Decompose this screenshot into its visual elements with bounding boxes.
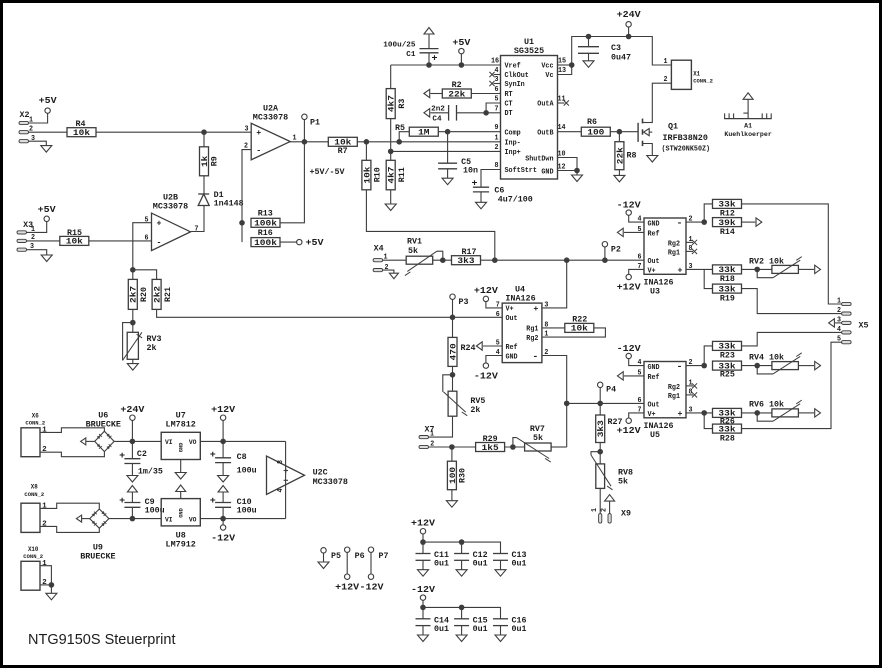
capacitor C14 0u1 [422, 607, 424, 618]
svg-text:A1: A1 [744, 123, 752, 131]
svg-text:X6: X6 [32, 412, 39, 419]
svg-text:10k: 10k [73, 129, 90, 138]
svg-text:2k2: 2k2 [154, 286, 163, 303]
svg-text:4: 4 [495, 67, 499, 75]
test point P5 [321, 548, 326, 553]
wire R12 to X5 pin1 [742, 204, 842, 304]
svg-text:V+: V+ [506, 306, 514, 314]
resistor R18 33k [713, 265, 742, 274]
svg-text:P5: P5 [331, 552, 341, 561]
wire C5 to ground [447, 169, 449, 178]
svg-text:Ref: Ref [506, 344, 518, 352]
wire R11 to ground [390, 190, 392, 204]
svg-text:+: + [533, 305, 538, 314]
svg-text:3k3: 3k3 [597, 420, 606, 437]
svg-text:0u1: 0u1 [512, 560, 527, 569]
svg-text:C1: C1 [406, 51, 416, 59]
svg-text:3k3: 3k3 [457, 257, 474, 266]
test point P7 [368, 547, 373, 552]
svg-text:R8: R8 [627, 152, 637, 161]
svg-text:1: 1 [42, 426, 47, 434]
wiper hook RV2 [757, 269, 773, 277]
+24V rail to U7 [114, 440, 161, 442]
test point P6 [345, 547, 350, 552]
gnd arrow above C10 [222, 492, 224, 503]
resistor R19 33k [704, 269, 712, 288]
svg-text:RV2: RV2 [749, 258, 764, 267]
svg-text:-: - [532, 352, 538, 362]
svg-text:Vref: Vref [505, 63, 521, 71]
-12V symbol for C14 [420, 595, 425, 600]
svg-text:+: + [119, 451, 125, 461]
svg-text:33k: 33k [718, 425, 735, 434]
svg-text:R20: R20 [140, 287, 149, 302]
svg-text:R27: R27 [608, 418, 623, 427]
svg-text:CONN_2: CONN_2 [23, 553, 43, 560]
wire R7 to SG3525 Inp- [357, 141, 500, 143]
+12V symbol for C11 [420, 529, 425, 534]
svg-text:0u1: 0u1 [434, 560, 449, 569]
svg-text:7: 7 [495, 105, 499, 113]
capacitor C8 100u [222, 441, 224, 457]
resistor R12 33k [704, 204, 712, 222]
resistor R26 33k [713, 408, 742, 417]
-12V rail to U8 [109, 518, 161, 520]
svg-text:-12V: -12V [411, 585, 436, 595]
wire RV7 to U4 minus line [551, 446, 567, 448]
svg-text:22k: 22k [448, 90, 465, 99]
svg-text:+: + [256, 129, 261, 138]
svg-text:2: 2 [42, 579, 47, 587]
wire X2 pin2 to R4 [29, 131, 68, 133]
svg-text:+: + [157, 220, 162, 229]
wire X2 pin3 to ground [29, 141, 47, 145]
resistor R11 4k7 [390, 151, 392, 160]
svg-text:4u7/100: 4u7/100 [498, 196, 533, 205]
junction C5 top [445, 129, 451, 135]
trimmer RV8 5k [596, 464, 605, 489]
svg-text:9: 9 [495, 124, 499, 132]
svg-text:Out: Out [506, 315, 518, 323]
svg-text:1m/35: 1m/35 [138, 468, 163, 477]
svg-text:INA126: INA126 [505, 294, 535, 304]
rail for C11-C13 [423, 542, 501, 553]
svg-text:R18: R18 [720, 275, 735, 284]
wire D1 to U2B output [191, 206, 205, 232]
junction R9 top [201, 129, 207, 135]
svg-text:V+: V+ [648, 411, 656, 419]
ground at Q1 source [647, 156, 658, 163]
trimmer RV3 2k [127, 332, 138, 359]
gnd arrow above U8 [180, 492, 182, 499]
wire R6 to Q1 gate [610, 131, 638, 133]
svg-text:Out: Out [648, 258, 660, 266]
svg-text:GND: GND [178, 508, 185, 518]
svg-text:100: 100 [449, 467, 458, 484]
svg-text:-: - [677, 219, 683, 229]
svg-text:+: + [210, 450, 216, 460]
svg-text:X4: X4 [374, 245, 384, 254]
+12V symbol at U5 [629, 413, 644, 418]
svg-text:2k: 2k [147, 344, 157, 353]
svg-text:7: 7 [195, 225, 199, 233]
svg-text:-12V: -12V [474, 372, 499, 382]
capacitor C12 0u1 [461, 542, 463, 553]
junction RV2 left [742, 268, 772, 270]
junction RV3 top [130, 320, 136, 326]
svg-text:+: + [678, 410, 683, 419]
svg-text:(STW20NK50Z): (STW20NK50Z) [662, 145, 711, 153]
svg-text:Rg2: Rg2 [526, 335, 538, 343]
svg-text:GND: GND [541, 168, 553, 176]
+24V symbol at bridge [130, 415, 135, 420]
svg-text:1: 1 [664, 58, 668, 66]
ground at X10 [50, 585, 52, 593]
wire C4 to DT and CT pins [457, 112, 501, 114]
svg-text:C2: C2 [137, 450, 147, 459]
net arrow after RV4 [798, 365, 814, 367]
svg-text:2: 2 [495, 144, 499, 152]
wire R5 right to Comp pin [438, 131, 500, 133]
wire X8 pin1 to bridge [40, 503, 99, 509]
capacitor C15 0u1 [461, 607, 463, 618]
connector X1 CONN_2 [671, 60, 691, 89]
svg-text:R25: R25 [720, 371, 735, 380]
wire U5 out to P4 and U4 minus [567, 402, 644, 404]
wire RV5 to X7 pin1 [429, 416, 453, 437]
svg-text:CONN_2: CONN_2 [24, 491, 44, 498]
svg-text:1: 1 [495, 134, 499, 142]
svg-text:+5V: +5V [38, 205, 57, 215]
svg-text:1: 1 [42, 502, 47, 510]
svg-text:+5V: +5V [39, 96, 58, 106]
svg-text:MC33078: MC33078 [153, 202, 188, 212]
wire X3 pin1 to +5V [27, 221, 47, 232]
svg-text:Q1: Q1 [668, 122, 678, 132]
svg-text:C8: C8 [237, 453, 247, 462]
svg-text:SG3525: SG3525 [514, 46, 544, 56]
wire RV8 to X9 pin1 [599, 489, 601, 514]
svg-text:2: 2 [42, 520, 47, 528]
resistor R27 3k3 [599, 403, 601, 415]
svg-text:2k: 2k [470, 406, 480, 415]
svg-text:Rg2: Rg2 [668, 240, 680, 248]
svg-text:R23: R23 [720, 352, 735, 361]
ground under C11 [418, 570, 429, 577]
junction RV8 top [599, 443, 601, 464]
wiper hook RV5 [443, 375, 453, 392]
resistor R21 2k2 [152, 279, 161, 309]
wire X1 pin2 to Q1 drain [643, 83, 672, 122]
svg-text:RV3: RV3 [147, 335, 162, 344]
svg-text:-: - [157, 238, 162, 247]
wire X6 pin1 to bridge [40, 428, 104, 433]
wire R10 loop to R17 node [366, 190, 494, 260]
svg-text:C3: C3 [611, 44, 621, 53]
svg-text:2n2: 2n2 [431, 106, 445, 114]
wire U2A output to R7 [290, 141, 328, 143]
wire R22 to Rg2 [542, 328, 606, 337]
svg-text:Out: Out [648, 401, 660, 409]
svg-text:Comp: Comp [505, 129, 521, 137]
pin 3 SynIn with x [494, 83, 501, 85]
net arrow X5 pin3 [829, 319, 835, 327]
net arrow above C1 [424, 28, 434, 35]
svg-text:8: 8 [277, 460, 285, 464]
svg-text:-12V: -12V [617, 344, 642, 354]
svg-text:VI: VI [165, 516, 173, 523]
svg-text:+: + [119, 496, 125, 506]
wire X6 pin2 to bridge [40, 452, 104, 457]
svg-text:R7: R7 [338, 147, 348, 156]
wire R5 left to Inp- node [399, 132, 409, 142]
test point P3 [450, 294, 455, 299]
svg-text:+: + [432, 54, 438, 64]
svg-text:R9: R9 [211, 156, 220, 166]
svg-text:X10: X10 [28, 546, 39, 553]
test point P1 [302, 114, 307, 119]
svg-text:RV8: RV8 [618, 469, 633, 478]
svg-text:R13: R13 [258, 210, 273, 219]
wire U4 minus down [542, 356, 567, 448]
instrumentation amp U4 INA126 box [502, 303, 542, 363]
svg-text:R16: R16 [258, 229, 273, 238]
wiper hook RV8 [591, 452, 600, 455]
svg-text:RV7: RV7 [530, 425, 545, 434]
wire C3 to ground [588, 53, 590, 61]
svg-text:ClkOut: ClkOut [505, 72, 529, 80]
wire OutB to R6 [558, 131, 582, 133]
net arrow U5 Ref [624, 375, 644, 377]
svg-text:OutA: OutA [537, 101, 554, 109]
svg-text:Inp+: Inp+ [505, 149, 521, 157]
svg-text:MC33078: MC33078 [253, 113, 288, 123]
svg-text:P3: P3 [459, 298, 469, 307]
+24V symbol [626, 22, 631, 27]
svg-text:MC33078: MC33078 [313, 477, 348, 487]
wire U5 plus to R26 [686, 412, 713, 414]
wire R3 to Inp+ node [390, 119, 392, 152]
svg-text:P2: P2 [611, 246, 621, 255]
junction U2A output [302, 139, 308, 145]
+5V symbol top [459, 48, 464, 53]
net arrow at C4 [424, 109, 430, 117]
capacitor C11 0u1 [422, 542, 424, 553]
wire X10 pin2 [40, 584, 51, 586]
svg-text:1: 1 [591, 508, 599, 512]
wire R23 to X5 pin4 [742, 332, 842, 346]
wiper hook RV4 [757, 366, 773, 374]
svg-text:Rg1: Rg1 [526, 326, 538, 334]
wire X8 pin2 to bridge [40, 526, 99, 532]
net arrow above X9 pin2 [605, 495, 615, 502]
-12V symbol at U3 [629, 215, 644, 222]
svg-text:X9: X9 [621, 510, 631, 519]
wiper hook RV6 [757, 413, 773, 421]
junction P3 [450, 315, 456, 321]
+12V symbol at U7 [220, 415, 225, 420]
junction R5 left [396, 139, 402, 145]
wiper hook RV1 [437, 251, 443, 260]
svg-text:1k: 1k [201, 155, 210, 167]
svg-text:-12V: -12V [617, 201, 642, 211]
svg-text:RV4: RV4 [749, 354, 764, 363]
-12V symbol at U4 [486, 356, 502, 364]
svg-text:1n4148: 1n4148 [214, 200, 244, 209]
svg-text:+24V: +24V [617, 10, 642, 20]
resistor R14 39k [713, 218, 742, 227]
wire R13 to output node [280, 142, 304, 223]
svg-text:Ref: Ref [648, 231, 660, 239]
svg-text:8: 8 [495, 162, 499, 170]
U5 Rg2 pin x [686, 385, 693, 387]
gnd arrow above C9 [131, 492, 133, 503]
svg-text:-: - [256, 147, 261, 156]
svg-text:R3: R3 [398, 98, 407, 108]
svg-text:Ref: Ref [648, 374, 660, 382]
svg-text:1: 1 [837, 298, 841, 306]
svg-text:0u1: 0u1 [512, 625, 527, 634]
wire R4 to U2A noninverting input [96, 131, 251, 133]
svg-text:INA126: INA126 [644, 279, 674, 288]
svg-text:Rg1: Rg1 [668, 249, 680, 257]
-12V symbol under C10 [222, 519, 224, 526]
svg-text:4k7: 4k7 [388, 166, 397, 183]
svg-text:470: 470 [449, 343, 458, 360]
svg-text:R14: R14 [720, 228, 735, 237]
svg-text:R10: R10 [374, 167, 383, 182]
svg-text:0u1: 0u1 [434, 625, 449, 634]
svg-text:Vc: Vc [545, 72, 553, 80]
wire U3 plus to R18 [686, 268, 713, 270]
svg-text:U2C: U2C [313, 468, 328, 478]
wire P1 to output node [303, 119, 305, 142]
wiper hook RV7 [513, 438, 517, 447]
svg-text:+12V: +12V [474, 286, 499, 296]
resistor R24 470 [452, 317, 454, 337]
svg-text:DT: DT [505, 110, 513, 118]
wire X3 pin2 to R15 [27, 240, 60, 242]
wire R15 to U2B inverting input [89, 240, 152, 242]
svg-text:P7: P7 [379, 552, 389, 561]
svg-text:R6: R6 [587, 118, 597, 127]
svg-text:1M: 1M [418, 129, 430, 138]
svg-text:100k: 100k [254, 239, 277, 248]
svg-text:39k: 39k [718, 219, 735, 228]
heatsink A1 Kuehlkoerper [724, 118, 772, 120]
svg-text:0u1: 0u1 [473, 625, 488, 634]
junction R13 left [239, 220, 245, 226]
svg-text:GND: GND [648, 364, 660, 372]
svg-text:+12V: +12V [335, 583, 360, 593]
instrumentation amp U5 INA126 [644, 362, 686, 418]
diode D1 1n4148 [203, 176, 205, 194]
junction R20 R21 top [130, 267, 136, 273]
op-amp U2C power unit [267, 456, 305, 494]
resistor R8 22k [618, 132, 620, 142]
svg-text:R11: R11 [398, 167, 407, 182]
svg-text:-12V: -12V [211, 534, 236, 544]
wire Vc to Vcc node [558, 65, 572, 75]
junction R10 loop [492, 257, 498, 263]
wire Inp+ node to SG3525 pin2 [391, 150, 501, 152]
-12V symbol at U5 [629, 358, 644, 365]
svg-text:Rg1: Rg1 [668, 393, 680, 401]
resistor R9 1k [203, 132, 205, 147]
svg-text:U3: U3 [650, 288, 660, 297]
+5V symbol at X3 [44, 216, 49, 221]
wire X10 pin1 [40, 566, 51, 585]
wire R8 to ground [618, 170, 620, 176]
net arrow U4 Ref [483, 345, 502, 347]
svg-text:LM7912: LM7912 [166, 540, 196, 550]
svg-text:Vcc: Vcc [541, 63, 553, 71]
svg-text:3: 3 [495, 76, 499, 84]
-12V rail from U8 [200, 518, 285, 520]
capacitor C3 0u47 [588, 37, 590, 47]
svg-text:0u1: 0u1 [473, 560, 488, 569]
capacitor C10 100u [222, 507, 224, 518]
svg-text:+12V: +12V [617, 426, 642, 436]
junction RV6 left [742, 412, 772, 414]
svg-text:1: 1 [42, 560, 47, 568]
svg-text:15: 15 [558, 58, 566, 66]
connector X9 [599, 514, 602, 524]
svg-text:R19: R19 [720, 294, 735, 303]
svg-text:6: 6 [495, 86, 499, 94]
resistor R7 10k [328, 137, 357, 146]
svg-text:GND: GND [648, 220, 660, 228]
junction Inp+ node [388, 149, 394, 155]
U3 Rg1 pin x [686, 250, 693, 252]
svg-text:100u: 100u [237, 467, 257, 476]
resistor R2 22k [430, 93, 442, 95]
svg-text:P6: P6 [355, 552, 365, 561]
svg-text:4k7: 4k7 [388, 95, 397, 112]
wire U2B noninverting input loop [133, 223, 152, 270]
wire R19 to X5 pin2 [742, 289, 842, 314]
svg-text:2: 2 [601, 508, 609, 512]
svg-text:CONN_2: CONN_2 [693, 78, 713, 85]
capacitor C4 2n2 [430, 112, 448, 114]
svg-text:SynIn: SynIn [505, 81, 525, 89]
test point P2 [602, 242, 607, 247]
wire U2A inverting input to feedback node [242, 150, 251, 243]
svg-text:+24V: +24V [120, 405, 145, 415]
svg-text:10n: 10n [463, 167, 478, 176]
pin 11 OutA with x [558, 102, 565, 104]
wire junction to R21 [133, 270, 157, 280]
wire X7 pin2 to R29 [429, 446, 476, 448]
junction U5 out line [564, 401, 570, 407]
svg-text:SoftStrt: SoftStrt [505, 167, 537, 175]
ground under U7 [180, 460, 182, 473]
wire R2 to RT pin [471, 93, 500, 95]
capacitor C13 0u1 [493, 553, 508, 555]
wire C2 to ground [131, 464, 133, 476]
svg-text:LM7812: LM7812 [166, 419, 196, 429]
svg-text:6: 6 [638, 253, 642, 261]
svg-text:ShutDwn: ShutDwn [525, 155, 553, 163]
svg-text:+: + [210, 496, 216, 506]
svg-text:5k: 5k [533, 434, 543, 443]
connector X5 [842, 302, 852, 305]
net arrow U3 Ref [624, 231, 644, 233]
wire R17 to U3 Out [481, 259, 644, 261]
svg-text:100k: 100k [254, 220, 277, 229]
ground under C14 [418, 635, 429, 642]
wire ShutDwn to GND [558, 158, 578, 171]
